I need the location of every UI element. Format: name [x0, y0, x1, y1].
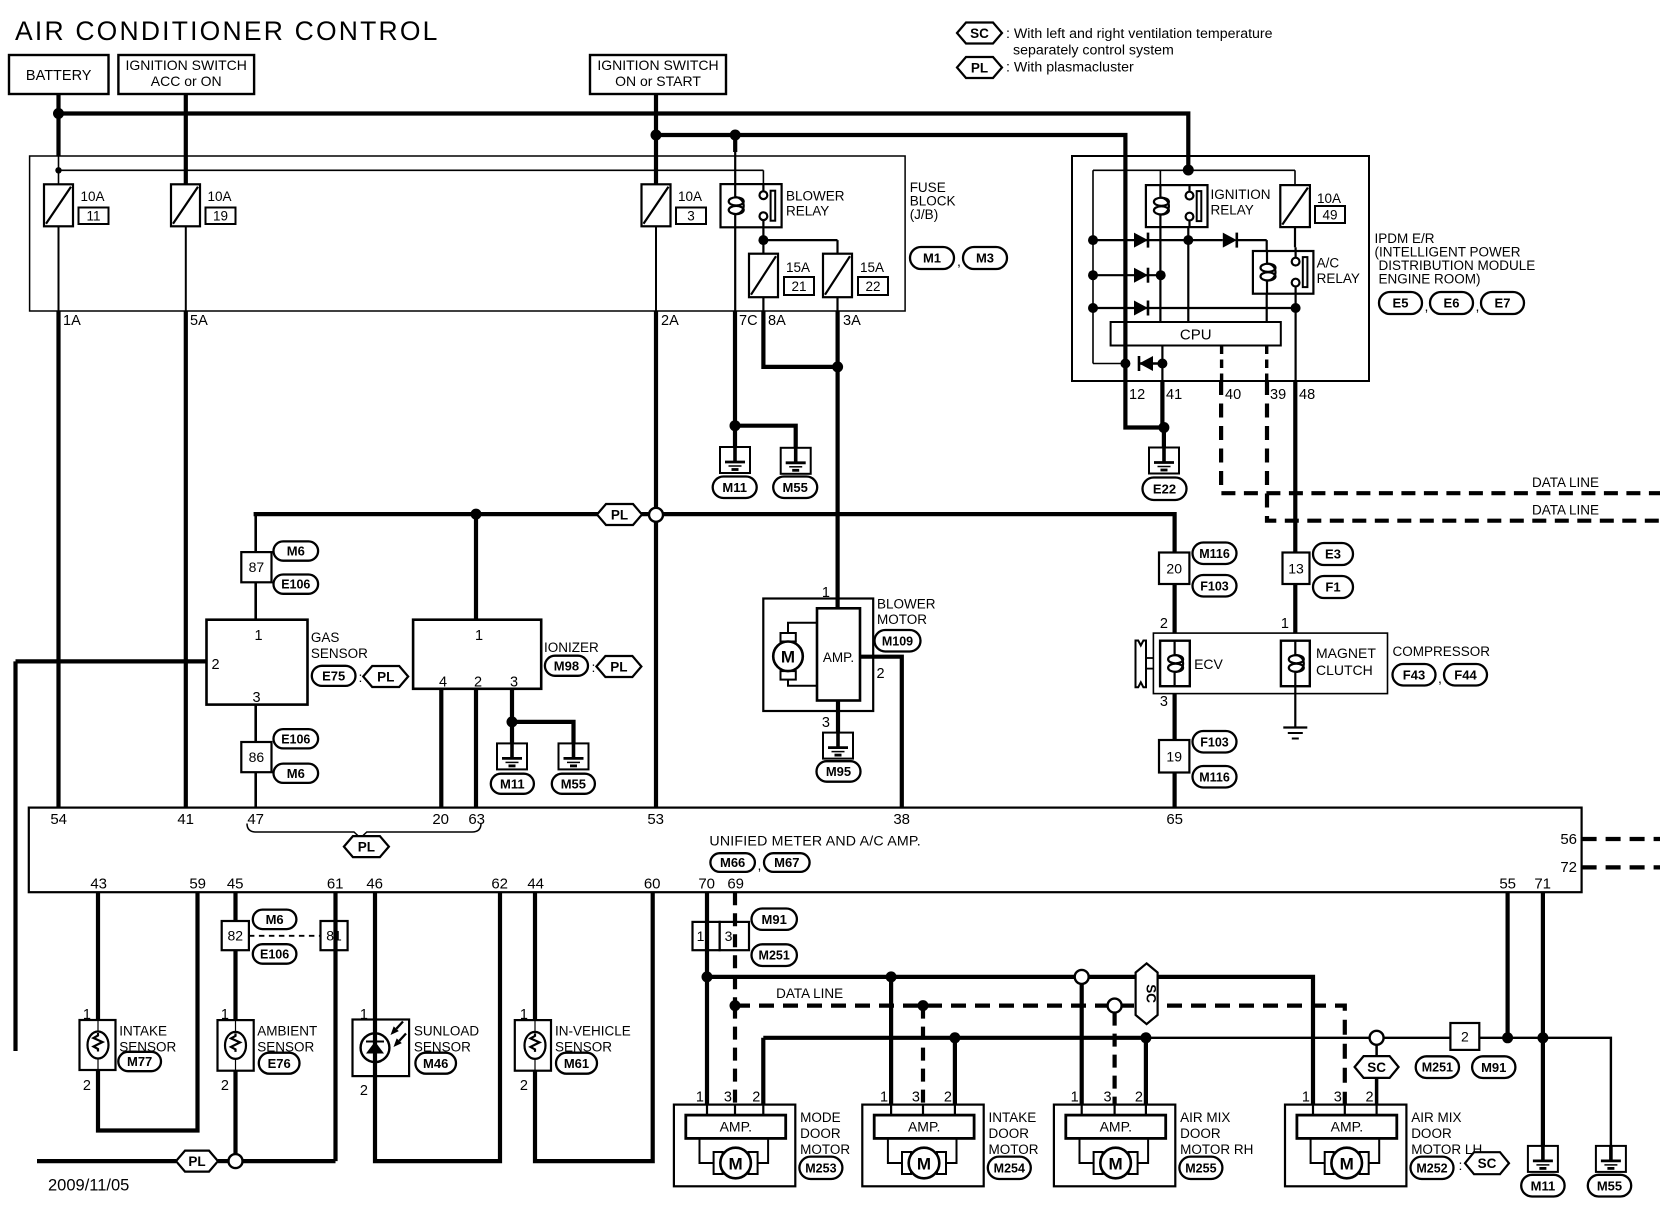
wire in-vehicle sensor to meter pin 60 [535, 892, 653, 1161]
svg-text:MAGNET: MAGNET [1316, 645, 1376, 661]
connector M77 [118, 1052, 161, 1071]
svg-text:E106: E106 [281, 578, 310, 592]
svg-text:E6: E6 [1444, 296, 1460, 311]
svg-text:41: 41 [1166, 387, 1182, 403]
svg-text:SC: SC [1144, 984, 1159, 1003]
svg-text:PL: PL [188, 1154, 205, 1169]
wire meter pin 70 [705, 892, 709, 977]
wire A/C relay coil to CPU [1266, 294, 1268, 322]
A/C relay box [1253, 251, 1314, 294]
blower relay coil [734, 184, 736, 197]
ground M11 (ionizer) [497, 743, 527, 769]
svg-text:E7: E7 [1495, 296, 1511, 311]
svg-text:60: 60 [644, 876, 661, 893]
node IPDM internal feed bus [1092, 170, 1094, 363]
svg-text:F43: F43 [1403, 667, 1425, 682]
tag PL sensor ground [176, 1151, 218, 1172]
svg-text:45: 45 [227, 876, 244, 893]
svg-text:M252: M252 [1416, 1161, 1447, 1175]
svg-text:3: 3 [1104, 1090, 1112, 1106]
connector M67 [764, 853, 810, 872]
svg-text:1: 1 [696, 1090, 704, 1106]
svg-text:2: 2 [944, 1090, 952, 1106]
svg-text:ECV: ECV [1194, 656, 1223, 672]
air mix door motor LH M252 [1285, 1105, 1406, 1187]
svg-text:DOOR: DOOR [1411, 1126, 1452, 1141]
blower relay contact [762, 184, 764, 191]
wire fuse 21 to pin 8A [762, 297, 764, 311]
wire sunload sensor to meter pin 62 [375, 892, 500, 1161]
wire meter pin 45 to connector 82 [233, 892, 237, 921]
svg-text:MOTOR: MOTOR [989, 1142, 1039, 1157]
svg-text:E106: E106 [260, 947, 289, 961]
svg-text:DOOR: DOOR [800, 1126, 841, 1141]
intake door motor M254 [862, 1105, 983, 1187]
junction air mix RH pin 3 open [1108, 999, 1122, 1013]
svg-text:3: 3 [252, 690, 260, 706]
svg-text:12: 12 [1129, 387, 1145, 403]
wire connector 13 to compressor pin 1 [1293, 584, 1297, 633]
wire gas sensor pin 2 [16, 659, 207, 663]
wire ignition relay contact to CPU [1187, 227, 1189, 322]
tag SC air mix LH pin 2 [1375, 1045, 1378, 1057]
svg-text:INTAKE: INTAKE [989, 1110, 1037, 1125]
connector 81 [321, 921, 348, 950]
svg-text:M55: M55 [561, 776, 586, 791]
junction intake motor pin 3 [918, 1000, 929, 1011]
fuse 10A 3 [642, 184, 671, 226]
tag PL meter [344, 836, 389, 857]
wire relay contact to fuses 21/22 [762, 227, 764, 253]
svg-text:DATA LINE: DATA LINE [1532, 503, 1599, 518]
connector M55 [773, 477, 817, 499]
svg-text:M251: M251 [759, 949, 790, 963]
svg-text:2: 2 [1366, 1090, 1374, 1106]
svg-text:7C: 7C [739, 313, 758, 329]
connector M95 [817, 761, 861, 782]
wire meter pin 46 to sunload sensor [373, 892, 377, 1019]
svg-text:2: 2 [1160, 616, 1168, 632]
svg-text:F1: F1 [1325, 580, 1340, 595]
connector M116 [1193, 766, 1237, 788]
bus 2 ignition ON/START [656, 135, 1125, 364]
svg-text:SENSOR: SENSOR [311, 646, 368, 661]
svg-text:M: M [1109, 1154, 1123, 1173]
svg-text:M77: M77 [127, 1054, 152, 1069]
wire fuse 3 pin 2A to meter pin 53 [654, 311, 658, 508]
connector M91 [752, 909, 797, 930]
wire intake sensor to meter pin 59 [98, 892, 198, 1130]
wire line A to air mix RH pin 1 [1080, 984, 1084, 1105]
svg-text:15A: 15A [786, 260, 810, 275]
svg-text:SUNLOAD: SUNLOAD [414, 1024, 480, 1039]
ground M11 (meter) [1528, 1146, 1558, 1172]
wire pin 1A to meter pin 54 [56, 311, 60, 808]
node fuse block internal bus [58, 156, 60, 184]
wire meter pin 61 through connector 81 [333, 892, 337, 1161]
ground compressor [1283, 726, 1307, 728]
svg-text:AMP.: AMP. [1331, 1119, 1363, 1135]
svg-text:1: 1 [221, 1007, 229, 1023]
svg-text:M: M [729, 1154, 743, 1173]
sunload sensor box [353, 1020, 410, 1077]
svg-text:87: 87 [249, 559, 265, 575]
svg-text:AMP.: AMP. [823, 650, 854, 665]
wire data line to air mix RH pin 3 dashed [1112, 1013, 1116, 1105]
svg-text:GAS: GAS [311, 630, 340, 645]
wire blower amp pin 3 to ground M95 [836, 701, 840, 733]
connector M109 [875, 630, 921, 652]
svg-text:M109: M109 [882, 634, 913, 648]
svg-text:IGNITION SWITCH: IGNITION SWITCH [126, 57, 247, 73]
svg-text:59: 59 [189, 876, 206, 893]
svg-text:3: 3 [1160, 694, 1168, 710]
svg-text:3: 3 [725, 928, 733, 944]
connector E5 [1379, 292, 1422, 314]
svg-text:1: 1 [1302, 1090, 1310, 1106]
wire line A to intake motor pin 1 [889, 977, 893, 1105]
wire connector 82 to ambient sensor [233, 950, 237, 1020]
svg-text:DATA LINE: DATA LINE [1532, 475, 1599, 490]
sunload sensor photodiode [361, 1033, 390, 1062]
fuse 10A 49 [1280, 185, 1310, 227]
wire ignition ACC down [184, 94, 188, 184]
svg-text:56: 56 [1560, 831, 1577, 848]
svg-text:M: M [781, 648, 795, 667]
wire meter pin 55 [1505, 892, 1509, 1038]
junction air mix RH pin 2 [1140, 1032, 1151, 1043]
wire data line to mode motor pin 3 dashed [733, 1006, 737, 1105]
connector M55 [552, 774, 595, 794]
fuse 10A 19 [171, 184, 200, 226]
svg-text:: With plasmacluster: : With plasmacluster [1006, 60, 1134, 76]
svg-text:M67: M67 [774, 855, 799, 870]
connector E106 [274, 575, 319, 594]
svg-text:A/C: A/C [1317, 256, 1340, 271]
junction E22 [1158, 422, 1169, 433]
svg-text:1: 1 [360, 1007, 368, 1023]
svg-text:M254: M254 [994, 1161, 1025, 1175]
svg-text:2: 2 [221, 1078, 229, 1094]
connector F43 [1393, 664, 1436, 686]
connector M3 [963, 247, 1007, 269]
svg-text:3: 3 [724, 1090, 732, 1106]
connector M116 [1193, 543, 1237, 565]
svg-text:E3: E3 [1325, 547, 1341, 562]
A/C relay coil [1266, 251, 1268, 264]
svg-text:1: 1 [822, 585, 830, 601]
blower motor box [763, 599, 873, 712]
svg-text:AIR MIX: AIR MIX [1180, 1110, 1230, 1125]
svg-text:IGNITION SWITCH: IGNITION SWITCH [597, 57, 718, 73]
svg-text:MODE: MODE [800, 1110, 841, 1125]
wire sensor ground link left [37, 1159, 176, 1163]
wire fuse 11 to pin 1A [58, 226, 60, 311]
svg-text:3: 3 [510, 675, 518, 691]
svg-text:MOTOR: MOTOR [800, 1142, 850, 1157]
wire ionizer pin 3 to grounds [510, 689, 514, 722]
svg-text:RELAY: RELAY [786, 204, 829, 219]
unified meter and A/C amp box [29, 808, 1582, 893]
in-vehicle sensor thermistor [525, 1032, 546, 1059]
ECV box [1160, 641, 1190, 687]
tag SC vertical on door motor lines [1136, 963, 1158, 1024]
air mix door motor RH M255 [1054, 1105, 1175, 1187]
junction relay to fuse 21 [758, 235, 768, 245]
ground M55 (ionizer) [559, 743, 589, 769]
connector 87 [241, 552, 271, 582]
svg-text:DATA LINE: DATA LINE [776, 986, 843, 1001]
junction pin70/motor1 [702, 971, 713, 982]
power source IGNITION SWITCH ON or START [590, 55, 726, 94]
svg-text:CPU: CPU [1180, 327, 1212, 344]
svg-text:SC: SC [970, 26, 989, 41]
connector E106 [253, 944, 297, 964]
wire meter pin 44 to in-vehicle sensor [533, 892, 537, 1020]
wire line C to mode motor pin 2 [761, 1038, 765, 1105]
ambient sensor thermistor [225, 1032, 246, 1059]
svg-text:15A: 15A [860, 260, 884, 275]
svg-text:M11: M11 [722, 480, 747, 495]
wire CPU pin 40 dashed [1220, 346, 1223, 382]
wire A/C relay contact to pin 48 [1294, 294, 1296, 381]
junction ionizer feed [471, 509, 482, 520]
junction 7C ground split [730, 420, 741, 431]
blower motor M [781, 633, 796, 642]
connector 13 [1283, 553, 1310, 585]
wire gas sensor pin 3 to connector 86 [254, 705, 257, 742]
wire meter pin 71 to ground M11 [1541, 892, 1545, 1146]
svg-text:1: 1 [697, 928, 705, 944]
wire line A to mode motor pin 1 [705, 977, 709, 1105]
connector E7 [1481, 292, 1524, 314]
svg-text:19: 19 [1166, 748, 1182, 764]
svg-text:E5: E5 [1393, 296, 1409, 311]
blower AMP box [817, 608, 860, 700]
svg-text:: With left and right ventilat: : With left and right ventilation temper… [1006, 26, 1273, 42]
svg-text:10A: 10A [678, 189, 702, 204]
svg-text:,: , [1425, 298, 1429, 314]
svg-text:PL: PL [610, 659, 627, 674]
svg-text:13: 13 [1288, 560, 1304, 576]
in-vehicle sensor box [515, 1020, 551, 1071]
junction 8A/3A [832, 361, 843, 372]
wire ionizer pin 2 to meter pin 63 [474, 689, 478, 808]
svg-text:MOTOR RH: MOTOR RH [1180, 1142, 1253, 1157]
wire ionizer pin 4 to meter pin 20 [439, 689, 443, 808]
svg-text:,: , [758, 857, 762, 873]
connector M66 [710, 853, 755, 872]
wire ionizer pin 1 [474, 514, 478, 620]
wire connector 19 to meter pin 65 [1172, 773, 1176, 808]
svg-text:69: 69 [727, 876, 744, 893]
connector M6 [274, 541, 319, 560]
svg-text:40: 40 [1225, 387, 1241, 403]
wire blower amp pin 2 [860, 657, 902, 808]
connector M61 [556, 1053, 597, 1074]
legend SC tag [957, 23, 1002, 44]
svg-text:11: 11 [86, 209, 100, 224]
connector M11 [1521, 1175, 1564, 1197]
bus door motor line C [763, 1036, 1146, 1040]
svg-text:1A: 1A [63, 313, 81, 329]
svg-text:AMP.: AMP. [908, 1119, 940, 1135]
wire fuse 3 to pin 2A [655, 226, 657, 311]
svg-text:PL: PL [971, 60, 988, 75]
connector M251 [752, 944, 797, 966]
svg-text:M11: M11 [1531, 1178, 1556, 1193]
power source BATTERY [9, 55, 109, 94]
svg-text:41: 41 [177, 811, 194, 828]
compressor pulley [1136, 641, 1147, 688]
svg-text:47: 47 [247, 811, 264, 828]
intake sensor box [80, 1020, 116, 1070]
wire fuse 22 to pin 3A [836, 297, 838, 311]
svg-text:53: 53 [647, 811, 664, 828]
junction battery bus [53, 108, 64, 119]
connector E22 [1143, 478, 1187, 501]
svg-text:M95: M95 [826, 764, 851, 779]
junction pin69/motor3 [730, 1000, 741, 1011]
wire CPU diode row 2 [1093, 274, 1161, 276]
svg-text:10A: 10A [208, 189, 232, 204]
svg-text:F44: F44 [1454, 667, 1477, 682]
svg-text:BATTERY: BATTERY [26, 68, 92, 84]
wire SC tag to air mix LH pin 2 [1375, 1078, 1379, 1104]
svg-text:1: 1 [254, 628, 262, 644]
svg-text:43: 43 [90, 876, 107, 893]
ECV coil [1173, 641, 1175, 655]
wire blower relay coil to pin 7C [734, 227, 736, 311]
svg-text:ACC or ON: ACC or ON [151, 73, 222, 89]
svg-text:3: 3 [912, 1090, 920, 1106]
svg-text:1: 1 [83, 1007, 91, 1023]
svg-text:AIR CONDITIONER CONTROL: AIR CONDITIONER CONTROL [15, 16, 440, 46]
svg-text:71: 71 [1534, 876, 1551, 893]
svg-text:RELAY: RELAY [1317, 271, 1360, 286]
svg-text:21: 21 [791, 279, 806, 294]
connector 1|3 M91/M251 [693, 922, 720, 950]
svg-text:4: 4 [439, 675, 447, 691]
magnet clutch box [1281, 641, 1310, 687]
junction air mix RH pin 1 open [1075, 970, 1089, 984]
connector M6 [274, 764, 319, 783]
svg-text:3A: 3A [843, 313, 861, 329]
junction intake motor pin 1 [886, 971, 897, 982]
tag PL gas sensor [363, 666, 408, 687]
power source IGNITION SWITCH ACC or ON [118, 55, 254, 94]
wire pin 5A to meter pin 41 [184, 311, 188, 808]
fuse block J/B box [30, 156, 906, 311]
svg-text:COMPRESSOR: COMPRESSOR [1393, 644, 1491, 659]
svg-text:82: 82 [228, 928, 244, 944]
junction ON/START bus [651, 130, 662, 141]
fuse 15A 21 [749, 254, 778, 298]
svg-text:F103: F103 [1200, 579, 1229, 593]
connector M11 [491, 774, 534, 794]
ignition relay coil [1159, 185, 1161, 198]
junction ignition relay contact feed [1183, 165, 1194, 176]
svg-text:3: 3 [822, 715, 830, 731]
svg-text:2: 2 [474, 675, 482, 691]
svg-text:62: 62 [491, 876, 508, 893]
svg-text:IGNITION: IGNITION [1211, 187, 1271, 202]
junction intake motor pin 2 [949, 1032, 960, 1043]
svg-text:M116: M116 [1199, 770, 1230, 784]
svg-text:1: 1 [520, 1007, 528, 1023]
svg-text:72: 72 [1560, 859, 1577, 876]
svg-text:3: 3 [1334, 1090, 1342, 1106]
svg-text:10A: 10A [1317, 191, 1341, 206]
wire ambient sensor to PL junction [233, 1071, 237, 1154]
svg-text:AIR MIX: AIR MIX [1411, 1110, 1461, 1125]
svg-text:20: 20 [1166, 560, 1182, 576]
wire pin 8A to blower feed [763, 311, 837, 367]
svg-text:2: 2 [877, 666, 885, 682]
svg-text:PL: PL [611, 507, 628, 522]
wire CPU pin 41 [1161, 346, 1163, 382]
data line 2 [1267, 381, 1660, 521]
svg-text:M6: M6 [287, 766, 305, 781]
connector M11 [713, 477, 757, 499]
ground M95 [823, 733, 853, 759]
svg-text:86: 86 [249, 749, 265, 765]
svg-text:M98: M98 [554, 658, 579, 673]
svg-text:M116: M116 [1199, 547, 1230, 561]
CPU box [1111, 322, 1281, 346]
svg-text:44: 44 [527, 876, 544, 893]
svg-text::: : [592, 659, 596, 675]
junction ignition relay coil to CPU [1156, 270, 1166, 280]
wire line C to air mix RH pin 2 [1144, 1038, 1148, 1105]
ionizer box [413, 620, 541, 689]
svg-text:PL: PL [358, 839, 375, 854]
svg-text:ENGINE ROOM): ENGINE ROOM) [1379, 272, 1481, 287]
svg-text:E76: E76 [268, 1056, 291, 1071]
svg-text:49: 49 [1322, 208, 1337, 223]
svg-text:M: M [1340, 1154, 1354, 1173]
gas sensor box [207, 620, 308, 705]
junction pin 55 [1502, 1032, 1513, 1043]
IPDM E/R box [1072, 156, 1369, 381]
tag PL on feed line [597, 504, 642, 525]
fuse 15A 22 [823, 254, 852, 298]
svg-text:BLOWER: BLOWER [786, 189, 845, 204]
magnet clutch coil [1294, 641, 1296, 655]
diode D1 [1134, 233, 1148, 248]
wire data line to intake motor pin 3 dashed [921, 1006, 925, 1105]
wire blower relay coil feed [733, 135, 737, 152]
diode D3 [1134, 268, 1148, 283]
wire connector 86 to meter pin 47 [254, 772, 257, 807]
wire battery feed down [56, 94, 60, 156]
svg-text:CLUTCH: CLUTCH [1316, 662, 1373, 678]
svg-text:55: 55 [1499, 876, 1516, 893]
tag PL ionizer [596, 656, 641, 677]
svg-text:2A: 2A [661, 313, 679, 329]
wire connector 20 to compressor pin 2 [1172, 584, 1176, 633]
connector M251 [1416, 1056, 1459, 1078]
svg-text:E106: E106 [281, 732, 310, 746]
wire pin 48 to connector 13 [1293, 381, 1297, 552]
svg-text:MOTOR: MOTOR [877, 612, 927, 627]
svg-text:39: 39 [1270, 387, 1286, 403]
svg-text:(J/B): (J/B) [910, 207, 939, 222]
svg-text:1: 1 [1071, 1090, 1079, 1106]
svg-text:19: 19 [213, 209, 228, 224]
svg-text:65: 65 [1166, 811, 1183, 828]
svg-text:M11: M11 [500, 776, 525, 791]
